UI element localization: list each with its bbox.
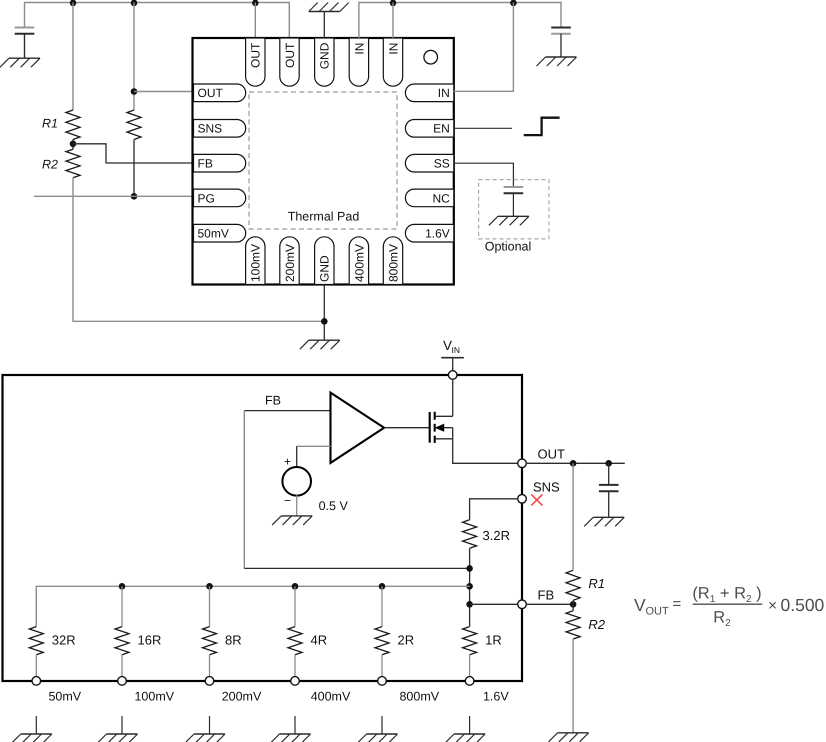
- svg-text:1R: 1R: [485, 633, 502, 648]
- node terminal 50mV: [32, 677, 41, 686]
- resistor 16R: [115, 627, 129, 655]
- ground below input cap: [546, 56, 577, 58]
- svg-text:16R: 16R: [138, 633, 162, 648]
- svg-text:OUT: OUT: [646, 606, 670, 618]
- wire 2R to terminal: [381, 655, 383, 677]
- transistor channel segments: [434, 412, 436, 420]
- wire 8R to terminal: [209, 655, 211, 677]
- wire FET source down to OUT: [453, 428, 518, 464]
- pin OUT (top): [246, 38, 265, 86]
- svg-text:32R: 32R: [52, 633, 76, 648]
- svg-text:2R: 2R: [398, 633, 415, 648]
- wire OUT rail down to pull-up resistor: [133, 3, 135, 111]
- node GND net junction: [321, 318, 328, 325]
- wire FB net to divider top: [244, 567, 469, 569]
- wire SS to soft-start cap: [454, 163, 514, 187]
- svg-text:8R: 8R: [225, 633, 242, 648]
- svg-text:400mV: 400mV: [352, 244, 366, 282]
- svg-text:NC: NC: [432, 191, 450, 205]
- ground below GND pin: [309, 339, 340, 341]
- IC package outline: [193, 38, 454, 285]
- ground below terminal x382: [381, 716, 383, 734]
- wire EN to step: [454, 127, 512, 129]
- svg-text:(R1 + R2 ): (R1 + R2 ): [692, 585, 761, 606]
- resistor 3.2R: [463, 520, 477, 549]
- pin 400mV (bottom): [349, 237, 368, 285]
- voltage source 0.5V: [282, 467, 311, 496]
- ground above GND top pin: [309, 11, 340, 13]
- svg-text:IN: IN: [438, 86, 450, 100]
- node VIN terminal: [448, 371, 457, 380]
- wire ladder drop x295: [294, 586, 296, 626]
- node terminal 100mV: [118, 677, 127, 686]
- node junction IN rail at IN pin2: [390, 0, 397, 6]
- node FB net junction upper: [466, 565, 473, 572]
- wire OUT to external R1: [572, 463, 574, 570]
- node terminal 1.6V: [465, 677, 474, 686]
- node external divider junction: [570, 601, 577, 608]
- capacitor output cap left: [15, 27, 35, 29]
- pin SS (right): [405, 154, 453, 172]
- wire IN rail to IN top pin2: [392, 3, 394, 39]
- svg-text:SNS: SNS: [198, 122, 223, 136]
- node R1-R2 junction: [70, 141, 77, 148]
- op-amp error amplifier: [331, 393, 385, 463]
- wire FB net vertical: [243, 411, 245, 569]
- wire R1 to R2: [572, 600, 574, 611]
- ground below terminal x295: [294, 716, 296, 734]
- ground soft-start: [498, 215, 529, 217]
- wire non-inverting input: [297, 445, 331, 447]
- pin EN (right): [405, 120, 453, 138]
- node junction OUT to cap: [605, 460, 612, 467]
- pin IN (right): [405, 84, 453, 102]
- wire R2 bottom to ground net: [73, 178, 323, 322]
- wire R1 bottom to junction: [72, 140, 74, 150]
- pin IN (top): [383, 38, 402, 86]
- ground below voltage source: [281, 515, 312, 517]
- svg-text:50mV: 50mV: [198, 227, 229, 241]
- pin GND (top): [315, 38, 334, 86]
- svg-text:1.6V: 1.6V: [483, 690, 509, 704]
- svg-text:100mV: 100mV: [134, 690, 174, 704]
- wire 32R to terminal: [35, 655, 37, 677]
- node terminal 800mV: [378, 677, 387, 686]
- node pull-up PG junction: [131, 193, 138, 200]
- ground below terminal x209.5: [209, 716, 211, 734]
- wire IN rail top: [359, 3, 561, 39]
- svg-text:800mV: 800mV: [399, 690, 439, 704]
- wire FB node to FB terminal: [470, 603, 518, 605]
- svg-text:OUT: OUT: [538, 447, 566, 462]
- pin OUT (left): [194, 84, 246, 102]
- wire GND bottom pin to ground: [323, 285, 325, 341]
- wire OUT rail top: [25, 3, 290, 39]
- pin 50mV (left): [194, 224, 246, 242]
- ground below terminal x36.3: [35, 716, 37, 734]
- thermal pad outline: [249, 92, 397, 229]
- resistor R1 external: [566, 570, 580, 600]
- resistor 8R: [203, 627, 217, 655]
- svg-text:400mV: 400mV: [311, 690, 351, 704]
- pin 1.6V (right): [405, 224, 453, 242]
- wire FET source: [435, 438, 453, 440]
- resistor R2 external: [566, 611, 580, 639]
- pin 800mV (bottom): [383, 237, 402, 285]
- wire junction to OUT pin: [134, 91, 194, 93]
- wire IN rail to right IN pin: [454, 3, 514, 92]
- wire FB to op-amp inverting input: [244, 410, 330, 412]
- ground below external R2: [558, 732, 589, 734]
- pin NC (right): [405, 189, 453, 207]
- wire FET body arrow line: [435, 427, 453, 429]
- wire op-amp output to gate: [384, 427, 430, 429]
- ground below left output cap: [9, 57, 40, 59]
- svg-text:GND: GND: [318, 42, 332, 69]
- wire OUT external: [526, 462, 624, 464]
- node junction OUT rail at OUT pin1 branch: [252, 0, 259, 6]
- wire GND top pin stub: [323, 12, 325, 39]
- svg-text:Optional: Optional: [485, 240, 532, 254]
- svg-text:50mV: 50mV: [48, 690, 81, 704]
- wire VIN stub: [452, 358, 454, 371]
- svg-text:−: −: [284, 494, 291, 508]
- enable step waveform symbol: [524, 118, 560, 135]
- pin PG (left): [194, 189, 246, 207]
- svg-text:200mV: 200mV: [222, 690, 262, 704]
- resistor 32R: [29, 627, 43, 655]
- svg-text:100mV: 100mV: [249, 244, 263, 282]
- optional box dashed: [479, 180, 549, 239]
- wire 3.2R to 1R: [469, 548, 471, 626]
- svg-text:FB: FB: [265, 394, 281, 408]
- svg-text:+: +: [284, 454, 291, 468]
- wire input cap lower lead: [560, 34, 562, 57]
- svg-text:OUT: OUT: [198, 86, 224, 100]
- functional block outline: [3, 375, 523, 681]
- pin GND (bottom): [315, 237, 334, 285]
- svg-text:EN: EN: [433, 122, 450, 136]
- svg-text:R2: R2: [42, 158, 58, 172]
- node terminal 200mV: [205, 677, 214, 686]
- svg-text:OUT: OUT: [283, 42, 297, 68]
- wire pull-up to PG line: [133, 140, 135, 197]
- node ladder bus junction x209.5: [206, 583, 213, 590]
- svg-text:R2: R2: [588, 617, 605, 632]
- svg-text:1.6V: 1.6V: [425, 227, 450, 241]
- svg-text:0.500: 0.500: [781, 595, 825, 615]
- node junction OUT rail at PG pull-up branch: [131, 0, 138, 6]
- pin OUT (top): [280, 38, 299, 86]
- svg-text:R1: R1: [588, 576, 605, 591]
- node terminal 400mV: [291, 677, 300, 686]
- wire divider junction to FB pin: [73, 144, 194, 163]
- svg-text:FB: FB: [198, 157, 213, 171]
- wire vsource to ground: [296, 495, 298, 516]
- wire ladder drop x122: [121, 586, 123, 626]
- wire FET drain: [435, 415, 453, 417]
- node ladder bus junction x382: [379, 583, 386, 590]
- svg-text:OUT: OUT: [249, 42, 263, 68]
- resistor 4R: [288, 627, 302, 655]
- wire ladder drop x209.5: [209, 586, 211, 626]
- pin 200mV (bottom): [280, 237, 299, 285]
- resistor R2: [66, 149, 80, 178]
- node junction OUT rail at R1 branch: [70, 0, 77, 6]
- node ladder bus junction x295: [292, 583, 299, 590]
- no-connect red X: [531, 494, 542, 505]
- VIN terminal bar: [441, 357, 464, 359]
- capacitor output cap (block diagram): [599, 484, 619, 486]
- wire resistor ladder bus: [36, 586, 469, 626]
- svg-text:=: =: [673, 596, 682, 613]
- pin 1 indicator circle: [424, 50, 438, 64]
- wire FB terminal external: [526, 603, 573, 605]
- node ladder bus junction x122: [119, 583, 126, 590]
- resistor 1R: [463, 627, 477, 655]
- wire OUT rail to top pin OUT1: [254, 3, 256, 39]
- svg-text:PG: PG: [198, 191, 215, 205]
- node OUT terminal: [518, 459, 527, 468]
- svg-text:0.5 V: 0.5 V: [319, 499, 349, 513]
- node junction IN rail at right IN pin branch: [510, 0, 517, 6]
- pin IN (top): [349, 38, 368, 86]
- pin SNS (left): [194, 120, 246, 138]
- node FB net junction bus: [466, 583, 473, 590]
- pin FB (left): [194, 154, 246, 172]
- svg-text:IN: IN: [386, 43, 400, 55]
- resistor PG pull-up: [127, 110, 141, 140]
- svg-text:×: ×: [768, 598, 777, 615]
- node FB net junction terminal: [466, 601, 473, 608]
- svg-text:IN: IN: [352, 43, 366, 55]
- svg-text:SNS: SNS: [533, 479, 560, 494]
- wire 1R to terminal: [469, 655, 471, 677]
- wire ladder drop x382: [381, 586, 383, 626]
- wire out cap lower lead: [608, 491, 610, 517]
- svg-text:4R: 4R: [311, 633, 328, 648]
- svg-text:GND: GND: [318, 255, 332, 282]
- wire SNS to 3.2R: [470, 499, 518, 520]
- pin 100mV (bottom): [246, 237, 265, 285]
- svg-text:FB: FB: [538, 587, 555, 602]
- wire ss cap lower lead: [512, 193, 514, 216]
- capacitor input cap right: [551, 27, 571, 29]
- node junction OUT to R1: [570, 460, 577, 467]
- svg-text:SS: SS: [434, 157, 450, 171]
- wire cap1 lower lead: [24, 34, 26, 58]
- svg-text:R1: R1: [42, 117, 58, 131]
- wire OUT rail down to R1: [72, 3, 74, 111]
- resistor 2R: [375, 627, 389, 655]
- svg-text:800mV: 800mV: [386, 244, 400, 282]
- wire VIN inside: [452, 379, 454, 416]
- svg-text:200mV: 200mV: [283, 244, 297, 282]
- ground below out cap: [593, 516, 624, 518]
- capacitor soft-start: [504, 186, 524, 188]
- wire 16R to terminal: [121, 655, 123, 677]
- wire out cap upper lead: [608, 463, 610, 485]
- ground below terminal x122: [121, 716, 123, 734]
- svg-text:Thermal Pad: Thermal Pad: [288, 210, 360, 224]
- transistor pass FET gate bar: [429, 412, 431, 443]
- svg-text:V: V: [634, 595, 646, 615]
- svg-text:3.2R: 3.2R: [483, 528, 510, 543]
- wire vsource to input: [296, 446, 298, 467]
- resistor R1: [66, 110, 80, 140]
- node SNS terminal: [518, 495, 527, 504]
- FET body arrow head: [435, 424, 445, 432]
- ground below terminal x469.6: [469, 716, 471, 734]
- wire 4R to terminal: [294, 655, 296, 677]
- svg-text:IN: IN: [452, 345, 461, 355]
- node pull-up to OUT pin junction: [131, 88, 138, 95]
- wire PG line: [34, 195, 194, 197]
- wire R2 to ground: [572, 639, 574, 733]
- node FB terminal: [518, 600, 527, 609]
